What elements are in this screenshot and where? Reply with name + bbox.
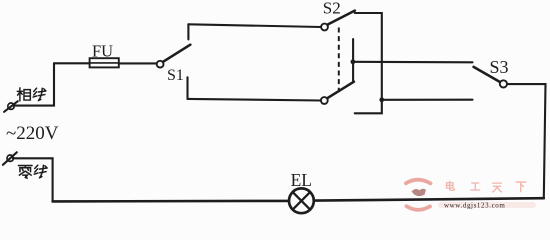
- svg-text:EL: EL: [291, 170, 312, 190]
- svg-text:~220V: ~220V: [6, 123, 59, 144]
- svg-text:FU: FU: [92, 41, 113, 60]
- svg-text:S3: S3: [490, 57, 509, 77]
- svg-text:S2: S2: [323, 0, 341, 17]
- svg-text:www.dgjs123.com: www.dgjs123.com: [444, 201, 505, 209]
- svg-text:S1: S1: [167, 67, 184, 84]
